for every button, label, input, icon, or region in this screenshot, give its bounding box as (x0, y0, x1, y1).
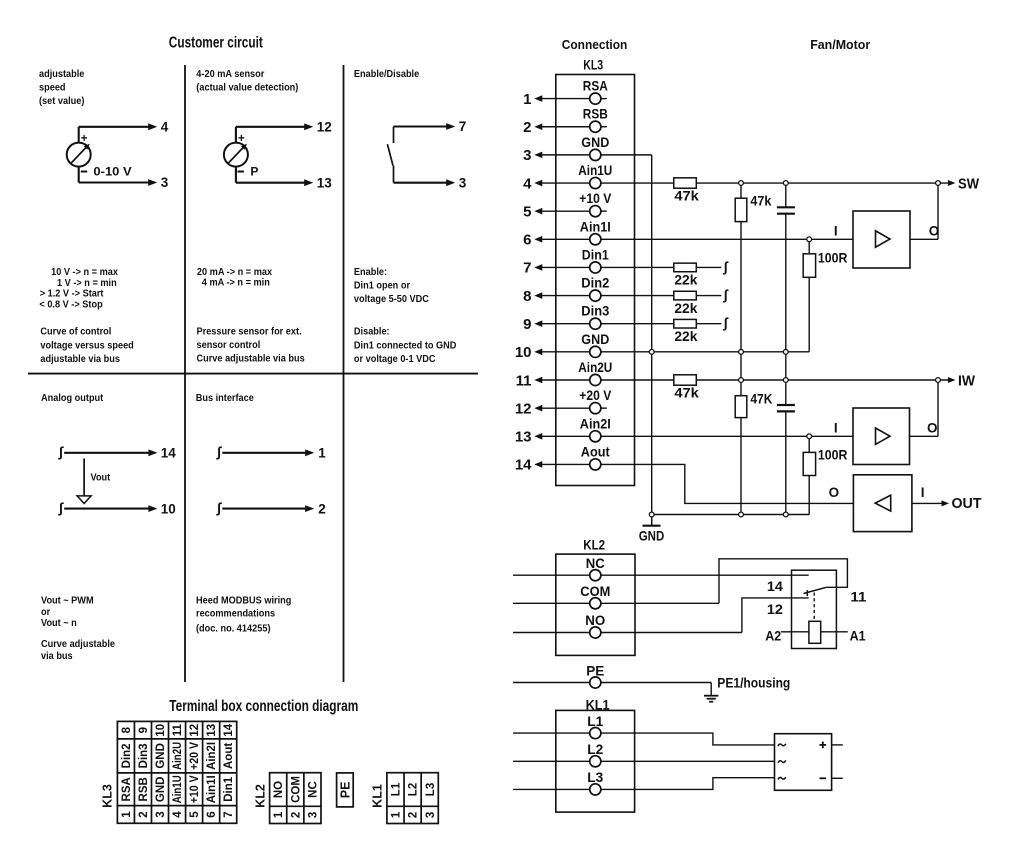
svg-text:12: 12 (515, 400, 532, 417)
relay K1 box (792, 570, 837, 648)
Vout arrow (77, 458, 111, 503)
title: Customer circuit (169, 35, 263, 52)
svg-text:4: 4 (523, 175, 532, 192)
terminal box PE (337, 773, 354, 807)
svg-text:9: 9 (138, 727, 150, 733)
wire buffer U3 to OUT (912, 496, 982, 512)
svg-text:Curve adjustable: Curve adjustable (41, 638, 115, 650)
svg-text:+10 V: +10 V (189, 775, 201, 803)
stub wire terminal 1 (601, 98, 607, 100)
svg-text:10: 10 (155, 724, 167, 737)
KL2 terminal NO (513, 612, 742, 638)
svg-text:3: 3 (307, 812, 319, 818)
capacitor C1 (SW) (777, 183, 795, 405)
switch S1 Din1 (387, 127, 393, 183)
svg-text:Ain2I: Ain2I (580, 415, 611, 431)
text: Enable block (354, 267, 429, 306)
svg-text:L3: L3 (425, 783, 437, 796)
text: Analog output (41, 392, 104, 404)
connection block KL1 (556, 710, 635, 812)
svg-text:KL2: KL2 (583, 538, 605, 553)
wire NO to relay contact 12 (742, 598, 809, 633)
net label SW (958, 176, 979, 192)
text: Pressure sensor block (197, 326, 306, 365)
svg-text:3: 3 (459, 175, 467, 190)
relay actuator dashed link (813, 593, 815, 621)
KL3 terminal 1 RSA (523, 78, 608, 108)
resistor 22k (row 8) + wire (601, 286, 729, 315)
svg-text:100R: 100R (818, 447, 848, 463)
resistor 22k (row 7) + wire (601, 258, 729, 287)
svg-text:7: 7 (523, 260, 531, 277)
svg-text:Din2: Din2 (581, 275, 609, 291)
svg-text:7: 7 (459, 119, 467, 134)
svg-text:Fan/Motor: Fan/Motor (810, 38, 870, 52)
svg-text:NO: NO (273, 781, 285, 798)
KL3 terminal 12 +20 V (515, 387, 612, 417)
svg-text:or voltage 0-1 VDC: or voltage 0-1 VDC (354, 353, 436, 365)
svg-text:+20 V: +20 V (189, 742, 201, 770)
text: Heed MODBUS block (196, 595, 291, 634)
svg-text:Ain1U: Ain1U (578, 162, 612, 178)
svg-text:6: 6 (523, 232, 531, 249)
text: Curve adjustable block (41, 638, 115, 662)
KL3 terminal 11 Ain2U (516, 359, 613, 389)
svg-text:13: 13 (515, 429, 532, 446)
horizontal section divider (28, 373, 478, 375)
connection block KL3 (556, 75, 635, 486)
resistor 100R (IW) (803, 436, 847, 514)
wire COM to relay contact 11 (719, 559, 847, 604)
column divider line 1 (184, 65, 186, 682)
svg-text:Terminal box connection diagra: Terminal box connection diagram (169, 698, 358, 715)
svg-text:IW: IW (958, 373, 975, 389)
wire GND terminal 3 to GND rail (601, 155, 652, 526)
svg-text:14: 14 (223, 723, 235, 736)
stub wire terminal 2 (601, 126, 607, 128)
svg-text:Disable:: Disable: (354, 326, 390, 338)
KL3 terminal 7 Din1 (523, 246, 609, 276)
svg-text:22k: 22k (674, 300, 697, 316)
svg-text:GND: GND (581, 331, 609, 347)
KL1 terminal L2 (513, 741, 775, 767)
svg-text:10: 10 (515, 344, 532, 361)
resistor 100R (SW) (803, 239, 847, 352)
wire Ain2U row 11 (IW line) (601, 377, 956, 383)
relay coil (809, 621, 821, 643)
svg-text:I: I (921, 485, 925, 500)
stub wire terminal 12 (601, 407, 607, 409)
ground symbol GND (639, 515, 665, 544)
svg-text:47k: 47k (674, 188, 699, 204)
svg-text:(set value): (set value) (39, 95, 84, 107)
KL3 terminal 5 +10 V (523, 190, 612, 220)
svg-text:22k: 22k (674, 328, 697, 344)
coil terminal A2 (765, 627, 809, 643)
svg-text:13: 13 (206, 724, 218, 737)
svg-text:speed: speed (39, 82, 66, 94)
KL1 terminal L3 (513, 769, 775, 795)
wire buffer U1 output to SW (910, 183, 938, 239)
svg-text:NC: NC (586, 555, 605, 571)
label KL2 (block) (583, 538, 605, 553)
svg-text:Analog output: Analog output (41, 392, 104, 404)
shunt resistor 47k (SW) (735, 183, 771, 396)
svg-text:47k: 47k (674, 385, 699, 401)
svg-text:5: 5 (189, 811, 201, 818)
earth symbol PE1/housing (704, 676, 790, 702)
svg-text:Enable:: Enable: (354, 267, 387, 279)
svg-text:Din3: Din3 (138, 743, 150, 768)
KL3 terminal 10 GND (515, 331, 609, 361)
wire to terminal 3 (enable) (394, 175, 467, 190)
text: Curve of control (40, 326, 133, 365)
svg-text:2: 2 (408, 812, 420, 818)
svg-text:+: + (238, 133, 245, 145)
KL3 terminal 2 RSB (523, 106, 608, 136)
svg-text:I: I (834, 420, 838, 435)
svg-text:Vout ~ PWM: Vout ~ PWM (41, 595, 94, 607)
svg-text:or: or (41, 606, 50, 618)
amplifier buffer U2 (IW) (853, 408, 938, 465)
svg-text:PE1/housing: PE1/housing (717, 676, 790, 691)
wire buffer U2 output to IW (910, 380, 939, 436)
svg-text:14: 14 (767, 578, 783, 594)
svg-text:0-10 V: 0-10 V (93, 165, 131, 179)
label KL1 (table) (371, 784, 385, 808)
svg-text:L2: L2 (587, 741, 603, 757)
wire to terminal 14 (analog out) (58, 444, 176, 461)
KL3 terminal 13 Ain2I (515, 415, 611, 445)
amplifier buffer U3 (OUT) (853, 475, 924, 532)
wire to terminal 7 (394, 119, 467, 134)
svg-text:Curve of control: Curve of control (40, 326, 111, 338)
wire GND row 10 rail (601, 351, 809, 353)
text: adjustable speed (set value) (39, 69, 85, 108)
svg-text:2: 2 (318, 501, 326, 516)
svg-text:4-20 mA sensor: 4-20 mA sensor (196, 69, 264, 81)
title: Fan/Motor (810, 38, 870, 52)
KL3 terminal 3 GND (523, 134, 609, 164)
KL3 terminal 8 Din2 (523, 275, 609, 305)
KL3 terminal 14 Aout (515, 443, 610, 473)
svg-text:GND: GND (155, 777, 167, 803)
svg-text:Connection: Connection (562, 38, 628, 52)
rectifier output stub + (832, 744, 843, 746)
text: Disable block (354, 326, 457, 365)
wire Aout row 14 to output buffer (601, 464, 854, 503)
svg-text:Din3: Din3 (581, 303, 609, 319)
text: Bus interface (196, 392, 255, 404)
junction dots (649, 181, 940, 517)
wire to terminal 2 (bus) (216, 500, 326, 517)
svg-text:11: 11 (850, 588, 866, 604)
svg-text:1: 1 (318, 446, 326, 461)
svg-text:Ain1I: Ain1I (580, 218, 611, 234)
svg-text:1: 1 (390, 811, 402, 818)
text: 4-20 mA sensor (196, 69, 298, 94)
svg-text:47K: 47K (750, 391, 772, 407)
svg-text:(doc. no. 414255): (doc. no. 414255) (196, 623, 271, 635)
svg-text:Aout: Aout (581, 443, 610, 459)
svg-text:22k: 22k (674, 272, 697, 288)
svg-text:PE: PE (586, 662, 604, 678)
column divider line 2 (343, 65, 345, 682)
relay contact label 14 (767, 578, 783, 594)
svg-text:KL1: KL1 (371, 784, 385, 808)
svg-text:Curve adjustable via bus: Curve adjustable via bus (197, 353, 306, 365)
label KL1 (block) (586, 697, 610, 712)
svg-text:Ain2U: Ain2U (578, 359, 612, 375)
svg-text:Vout ~ n: Vout ~ n (41, 618, 77, 630)
svg-text:5: 5 (523, 203, 531, 220)
svg-text:+: + (81, 133, 88, 145)
svg-text:Ain2U: Ain2U (172, 742, 184, 770)
title: Terminal box connection diagram (169, 698, 358, 715)
amplifier buffer U1 (SW) (853, 211, 939, 268)
net label IW (958, 373, 975, 389)
wire Ain1I row 6 to buffer (601, 223, 853, 239)
svg-text:OUT: OUT (952, 496, 982, 512)
svg-text:O: O (829, 485, 840, 500)
svg-text:3: 3 (161, 175, 169, 190)
wire to terminal 4 (79, 120, 169, 135)
svg-text:RSA: RSA (583, 78, 608, 94)
svg-text:+20 V: +20 V (579, 387, 612, 403)
svg-text:Aout: Aout (223, 743, 235, 769)
coil terminal A1 (821, 627, 866, 643)
svg-text:7: 7 (223, 811, 235, 817)
terminal table KL2 (270, 773, 321, 824)
svg-text:L1: L1 (587, 713, 603, 729)
KL1 terminal L1 (513, 713, 775, 745)
svg-text:RSB: RSB (138, 777, 150, 801)
svg-text:GND: GND (581, 134, 609, 150)
text: 20 mA curve block (197, 267, 273, 289)
svg-text:KL2: KL2 (253, 784, 267, 808)
resistor 47k (series Ain2U) (674, 375, 699, 401)
svg-text:L1: L1 (390, 782, 402, 796)
svg-text:3: 3 (523, 147, 531, 164)
svg-text:adjustable: adjustable (39, 69, 85, 81)
svg-text:Ain1U: Ain1U (172, 775, 184, 803)
svg-text:3: 3 (155, 811, 167, 817)
svg-text:11: 11 (516, 372, 532, 389)
svg-text:12: 12 (317, 120, 332, 135)
svg-text:14: 14 (515, 457, 532, 474)
KL3 terminal 6 Ain1I (523, 218, 611, 248)
svg-text:voltage 5-50 VDC: voltage 5-50 VDC (354, 294, 429, 306)
svg-text:1: 1 (273, 811, 285, 818)
svg-text:2: 2 (290, 812, 302, 818)
capacitor C2 (IW) (777, 405, 795, 515)
svg-text:KL3: KL3 (101, 784, 115, 808)
svg-text:1: 1 (121, 811, 133, 818)
svg-text:2: 2 (523, 119, 531, 136)
svg-text:PE: PE (338, 782, 352, 799)
svg-text:RSB: RSB (583, 106, 608, 122)
svg-text:RSA: RSA (121, 777, 133, 801)
svg-text:4: 4 (161, 120, 169, 135)
svg-text:Heed MODBUS wiring: Heed MODBUS wiring (196, 595, 291, 607)
text: Enable/Disable (354, 69, 420, 81)
svg-text:COM: COM (290, 776, 302, 803)
svg-text:voltage versus speed: voltage versus speed (40, 340, 133, 352)
svg-text:adjustable via bus: adjustable via bus (40, 353, 120, 365)
KL3 terminal 4 Ain1U (523, 162, 612, 192)
svg-text:11: 11 (172, 724, 184, 737)
svg-text:O: O (927, 420, 938, 435)
resistor 22k (row 9) + wire (601, 315, 729, 344)
wire to terminal 12 (236, 120, 332, 135)
svg-text:via bus: via bus (41, 650, 73, 662)
relay contact label 12 (767, 601, 783, 617)
svg-text:4 mA -> n = min: 4 mA -> n = min (202, 277, 270, 289)
wire to terminal 10 (analog out) (58, 500, 176, 517)
svg-text:GND: GND (639, 528, 665, 544)
svg-text:Vout: Vout (91, 472, 111, 484)
svg-text:A1: A1 (850, 627, 866, 643)
label KL3 (block) (583, 58, 603, 73)
svg-text:13: 13 (317, 175, 333, 190)
svg-text:6: 6 (206, 811, 218, 817)
svg-text:L2: L2 (408, 783, 420, 796)
voltage source G1 0-10 V (67, 127, 132, 183)
wire to terminal 1 (bus) (216, 444, 326, 461)
svg-text:100R: 100R (818, 250, 848, 266)
svg-text:Customer circuit: Customer circuit (169, 35, 263, 52)
svg-text:Din1: Din1 (582, 246, 609, 262)
label KL2 (table) (253, 784, 267, 808)
svg-text:2: 2 (138, 811, 150, 817)
shunt resistor 47K (IW) (735, 391, 772, 515)
KL2 terminal COM (513, 583, 719, 609)
svg-text:Ain2I: Ain2I (206, 742, 218, 770)
svg-text:SW: SW (958, 176, 979, 192)
stub wire terminal 5 (601, 210, 607, 212)
wire Ain1U row 4 (SW line) (601, 180, 956, 186)
text: 10 V curve block (39, 267, 118, 311)
svg-text:14: 14 (161, 446, 177, 461)
pressure sensor P (224, 127, 259, 183)
svg-text:4: 4 (172, 811, 184, 818)
connection block KL2 (556, 554, 635, 655)
svg-text:9: 9 (523, 316, 531, 333)
wire Ain2I row 13 to buffer (601, 420, 853, 436)
svg-text:+10 V: +10 V (579, 190, 612, 206)
svg-text:8: 8 (523, 288, 531, 305)
relay switch blade (804, 587, 827, 596)
svg-text:< 0.8 V -> Stop: < 0.8 V -> Stop (39, 299, 102, 311)
rectifier output stub - (832, 777, 843, 779)
svg-text:recommendations: recommendations (196, 608, 276, 620)
svg-text:Ain1I: Ain1I (206, 775, 218, 803)
title: Connection (562, 38, 628, 52)
KL2 terminal NC (513, 555, 809, 581)
KL3 terminal 9 Din3 (523, 303, 609, 333)
svg-text:12: 12 (189, 724, 201, 737)
svg-text:Enable/Disable: Enable/Disable (354, 69, 420, 81)
svg-text:P: P (250, 165, 258, 179)
svg-text:I: I (834, 223, 838, 238)
svg-text:12: 12 (767, 601, 783, 617)
wire to terminal 3 (79, 175, 169, 190)
resistor R1 47k (series Ain1U) (674, 178, 699, 204)
svg-text:10: 10 (161, 501, 176, 516)
svg-text:(actual value detection): (actual value detection) (196, 82, 298, 94)
svg-text:Pressure sensor for ext.: Pressure sensor for ext. (197, 326, 302, 338)
svg-text:sensor control: sensor control (197, 339, 261, 351)
relay contact label 11 (850, 588, 866, 604)
svg-text:Din1 open or: Din1 open or (354, 280, 410, 292)
wire to terminal 13 (236, 175, 332, 190)
terminal table KL3 (117, 721, 236, 823)
svg-text:KL3: KL3 (583, 58, 603, 73)
GND rail (bottom) (652, 514, 810, 516)
label KL3 (table) (101, 784, 115, 808)
svg-text:COM: COM (580, 583, 610, 599)
svg-text:NO: NO (585, 612, 605, 628)
svg-text:47k: 47k (750, 192, 771, 208)
svg-text:3: 3 (425, 812, 437, 818)
svg-text:Bus interface: Bus interface (196, 392, 255, 404)
PE terminal (513, 662, 711, 688)
svg-text:Din1: Din1 (223, 776, 235, 802)
rectifier/power module (775, 734, 832, 791)
svg-text:L3: L3 (587, 769, 603, 785)
svg-text:Din2: Din2 (121, 743, 133, 768)
svg-text:Din1 connected to GND: Din1 connected to GND (354, 340, 457, 352)
svg-text:8: 8 (121, 726, 133, 733)
svg-text:A2: A2 (765, 627, 781, 643)
svg-text:1: 1 (523, 91, 531, 108)
terminal table KL1 (387, 773, 438, 824)
svg-text:GND: GND (155, 743, 167, 769)
svg-text:NC: NC (307, 781, 319, 798)
text: Vout PWM block (41, 595, 94, 629)
